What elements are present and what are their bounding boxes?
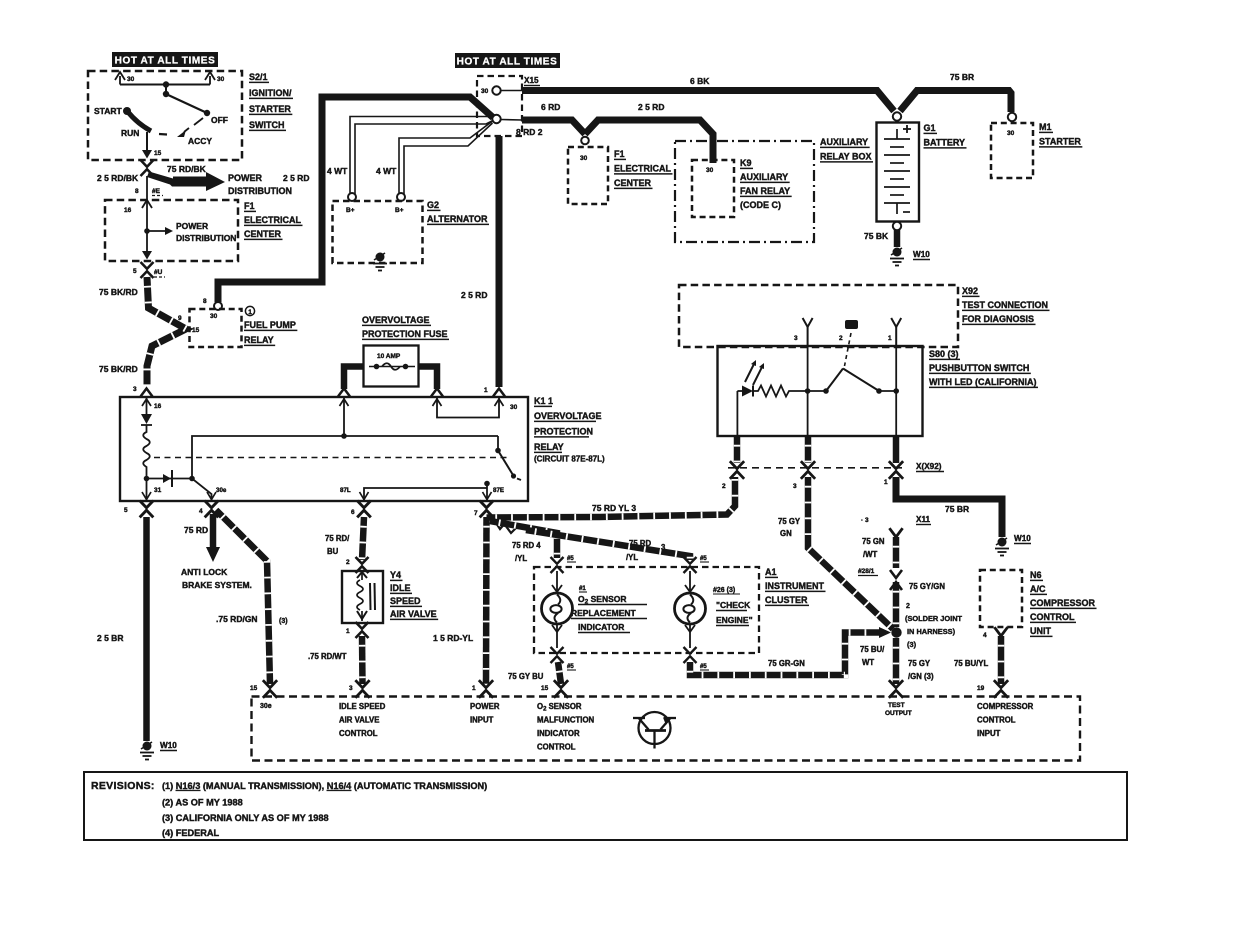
svg-text:/YL: /YL xyxy=(626,553,638,562)
diagnosis connector X92 box xyxy=(679,285,958,347)
svg-text:3: 3 xyxy=(133,386,137,393)
K1/1 labels xyxy=(534,396,605,464)
battery bottom terminal circle xyxy=(893,222,901,230)
svg-text:3: 3 xyxy=(661,543,666,552)
svg-text:2 5 RD: 2 5 RD xyxy=(638,102,664,112)
svg-text:(2) AS OF MY 1988: (2) AS OF MY 1988 xyxy=(162,798,243,808)
svg-text:CONTROL: CONTROL xyxy=(339,729,378,738)
svg-text:BATTERY: BATTERY xyxy=(924,138,966,148)
K1/1 terminal 30e connector xyxy=(205,501,219,518)
svg-text:30: 30 xyxy=(510,404,518,411)
electrical center F1 box (left) xyxy=(105,200,238,261)
svg-text:2 5 RD: 2 5 RD xyxy=(283,173,309,183)
svg-text:G2: G2 xyxy=(427,200,439,210)
K1/1 wire node A to terminal 31 xyxy=(146,479,148,501)
svg-text:87L: 87L xyxy=(340,487,351,494)
svg-text:X(X92): X(X92) xyxy=(916,462,942,471)
O2 sensor replacement indicator lamp xyxy=(542,593,573,624)
svg-text:75 RD: 75 RD xyxy=(184,525,208,535)
connector X(X92) dashed line xyxy=(728,467,902,469)
svg-text:75 BK/RD: 75 BK/RD xyxy=(99,287,138,297)
connector X11 xyxy=(916,515,931,525)
svg-text:INDICATOR: INDICATOR xyxy=(578,622,624,632)
svg-text:10 AMP: 10 AMP xyxy=(377,353,401,360)
svg-text:W10: W10 xyxy=(913,250,930,259)
svg-text:CONTROL: CONTROL xyxy=(537,743,576,752)
electrical center F1 terminal circle xyxy=(581,137,589,145)
X15 terminal 30 circle xyxy=(492,86,500,94)
svg-text:A/C: A/C xyxy=(1030,584,1046,594)
S80/3 LED arrows xyxy=(745,360,764,385)
svg-text:W10: W10 xyxy=(160,741,177,750)
svg-text:19: 19 xyxy=(977,685,985,692)
svg-text:S80 (3): S80 (3) xyxy=(929,349,959,359)
svg-text:X11: X11 xyxy=(916,515,931,524)
svg-text:WITH LED (CALIFORNIA): WITH LED (CALIFORNIA) xyxy=(929,377,1036,387)
svg-text:#E: #E xyxy=(152,188,161,195)
check engine lamp stem above xyxy=(689,571,691,593)
X(X92) connector pin 1 xyxy=(889,461,903,479)
S2/1 terminal 30 left arrow xyxy=(115,72,135,85)
svg-text:#5: #5 xyxy=(567,556,574,562)
wire 75 GY GN from X(X92) pin 3 to solder joint xyxy=(808,477,893,629)
svg-text:1: 1 xyxy=(884,479,888,486)
check engine lamp stem below xyxy=(685,624,695,648)
svg-text:ENGINE": ENGINE" xyxy=(716,615,753,625)
svg-text:30e: 30e xyxy=(216,487,227,494)
instrument cluster A1 dashed box xyxy=(534,567,759,653)
svg-text:75 BR: 75 BR xyxy=(950,72,974,82)
svg-text:1: 1 xyxy=(346,628,350,635)
svg-text:START: START xyxy=(94,106,123,116)
svg-text:75 GN: 75 GN xyxy=(862,537,885,546)
svg-text:#5: #5 xyxy=(700,556,707,562)
svg-text:2 5 RD/BK: 2 5 RD/BK xyxy=(97,173,139,183)
svg-text:#28/1: #28/1 xyxy=(858,568,875,575)
terminal 3 connector bottom box xyxy=(355,680,369,698)
power distribution arrow xyxy=(147,172,225,192)
label HOT AT ALL TIMES (left) xyxy=(112,52,218,67)
svg-text:16: 16 xyxy=(154,403,162,410)
svg-text:4 WT: 4 WT xyxy=(376,166,397,176)
K1/1 diode xyxy=(141,397,152,425)
F1 internal node xyxy=(144,228,150,234)
S2/1 START contact blob xyxy=(123,107,131,115)
X92 pin 1 xyxy=(888,318,901,346)
wire 1.5 RD-YL power input xyxy=(483,517,490,684)
K1/1 terminal 31 connector xyxy=(140,501,154,518)
svg-text:RELAY BOX: RELAY BOX xyxy=(820,152,872,162)
K1/1 mechanical link dashed xyxy=(154,457,511,459)
power input text xyxy=(470,702,500,725)
svg-text:30: 30 xyxy=(210,313,218,320)
svg-text:B+: B+ xyxy=(395,207,404,214)
svg-text:REPLACEMENT: REPLACEMENT xyxy=(571,608,637,618)
svg-text:75 RD 4: 75 RD 4 xyxy=(512,541,541,550)
svg-text:30: 30 xyxy=(217,76,225,83)
svg-text:75 GR-GN: 75 GR-GN xyxy=(768,659,805,668)
battery G1 box xyxy=(877,123,920,222)
svg-text:SPEED: SPEED xyxy=(390,596,421,606)
svg-text:OVERVOLTAGE: OVERVOLTAGE xyxy=(362,315,430,325)
svg-text:75 BR: 75 BR xyxy=(945,504,969,514)
idle speed air valve control text xyxy=(339,702,386,738)
svg-text:W10: W10 xyxy=(1014,534,1031,543)
G2 labels xyxy=(427,200,489,224)
S80/3 LED diode xyxy=(737,386,753,397)
O2 lamp stem below xyxy=(552,624,562,648)
wire 75 BK/RD hatched to fuel pump relay and K1/1 xyxy=(147,277,186,386)
S2/1 ACCY dashed contact xyxy=(184,118,203,132)
N6 labels xyxy=(1030,570,1097,636)
starter M1 box xyxy=(991,123,1033,178)
S80/3 switch pivot node xyxy=(823,388,829,394)
wire 75 BU/YL to bottom box xyxy=(998,636,1005,684)
O2 indicator labels xyxy=(571,586,647,633)
wire .75 RD/GN to terminal 30e xyxy=(216,510,270,684)
wire .75 RD/WT to bottom box xyxy=(359,636,366,684)
svg-text:POWER: POWER xyxy=(228,173,263,183)
fuse left wire xyxy=(344,367,364,390)
svg-text:N6: N6 xyxy=(1030,570,1042,580)
wire 75 RD YL bus from K1/1 87E to X(X92) pin 2 xyxy=(487,477,736,518)
ground W10 left xyxy=(140,742,154,760)
svg-text:CENTER: CENTER xyxy=(614,178,652,188)
wire 75 GN/WT test output xyxy=(893,537,900,568)
svg-text:2: 2 xyxy=(906,603,910,610)
svg-text:HOT AT ALL TIMES: HOT AT ALL TIMES xyxy=(457,57,558,68)
wire 2.5 RD vertical from X15 to K1/1 xyxy=(496,136,503,387)
revisions text xyxy=(91,780,487,838)
overvoltage protection relay K1/1 box xyxy=(120,397,528,501)
svg-text:CONTROL: CONTROL xyxy=(977,716,1016,725)
alternator wires 4WT pair B xyxy=(399,121,493,196)
compressor control input text xyxy=(977,702,1034,738)
K1/1 node A xyxy=(144,476,150,482)
svg-text:HOT AT ALL TIMES: HOT AT ALL TIMES xyxy=(115,56,216,67)
svg-text:75 GY: 75 GY xyxy=(778,517,801,526)
svg-text:F1: F1 xyxy=(614,149,625,159)
label HOT AT ALL TIMES (middle) xyxy=(455,53,560,68)
K1/1 wire to switch pivot xyxy=(497,436,499,449)
svg-text:(CODE C): (CODE C) xyxy=(740,200,781,210)
svg-text:· 3: · 3 xyxy=(861,517,869,524)
svg-text:4: 4 xyxy=(199,508,203,515)
svg-text:S2/1: S2/1 xyxy=(249,72,268,82)
svg-text:75 RD/: 75 RD/ xyxy=(325,534,350,543)
idle valve bottom connector xyxy=(356,622,369,638)
svg-text:75 BK/RD: 75 BK/RD xyxy=(99,364,138,374)
terminal 30e connector bottom box xyxy=(263,680,277,698)
power distribution text xyxy=(228,173,292,196)
svg-text:#26 (3): #26 (3) xyxy=(713,587,735,594)
svg-text:B+: B+ xyxy=(346,207,355,214)
K1/1 relay coil xyxy=(143,425,150,477)
svg-text:IDLE: IDLE xyxy=(390,583,411,593)
svg-text:RELAY: RELAY xyxy=(244,335,274,345)
branch connector chevrons at 87E xyxy=(494,520,517,533)
X92 labels xyxy=(962,286,1050,324)
svg-text:RELAY: RELAY xyxy=(534,442,564,452)
solder joint dot xyxy=(891,627,901,637)
svg-text:F1: F1 xyxy=(244,201,255,211)
S80/3 switch arm dashed link to pin 2 xyxy=(845,333,852,366)
K1/1 terminal mid-right arrow xyxy=(431,389,443,397)
svg-text:POWER: POWER xyxy=(176,221,208,231)
anti-lock brake system text xyxy=(181,567,252,590)
wire .75 RD 4/YL to O2 indicator xyxy=(490,521,557,558)
connector below F1 xyxy=(141,262,154,278)
svg-text:RUN: RUN xyxy=(121,128,139,138)
svg-text:REVISIONS:: REVISIONS: xyxy=(91,780,155,792)
X92 pin 3 xyxy=(794,318,813,346)
X(X92) connector pin 2 xyxy=(730,461,744,479)
S80/3 switch contact wire xyxy=(843,369,899,394)
svg-text:15: 15 xyxy=(154,150,162,157)
svg-text:M1: M1 xyxy=(1039,122,1052,132)
svg-text:.75 RD/WT: .75 RD/WT xyxy=(308,652,347,661)
svg-text:30: 30 xyxy=(706,167,714,174)
idle valve top connector xyxy=(356,557,369,573)
S80/3 output stub left xyxy=(734,436,741,463)
svg-text:PUSHBUTTON SWITCH: PUSHBUTTON SWITCH xyxy=(929,363,1029,373)
svg-text:(3) CALIFORNIA ONLY AS OF MY 1: (3) CALIFORNIA ONLY AS OF MY 1988 xyxy=(162,813,329,823)
connector #28/1 label xyxy=(858,568,878,576)
svg-text:(1) N16/3 (MANUAL TRANSMISSION: (1) N16/3 (MANUAL TRANSMISSION), N16/4 (… xyxy=(162,781,487,791)
svg-text:6: 6 xyxy=(351,509,355,516)
svg-text:#5: #5 xyxy=(700,664,707,670)
F1 power distribution text xyxy=(176,221,236,243)
svg-text:6 RD: 6 RD xyxy=(541,102,560,112)
K1/1 terminal 87L connector xyxy=(357,501,371,518)
A1 connector below O2 lamp xyxy=(551,647,564,663)
G1 labels xyxy=(924,123,967,148)
svg-text:15: 15 xyxy=(192,327,200,334)
svg-text:PROTECTION: PROTECTION xyxy=(534,427,593,437)
alternator ground xyxy=(373,253,387,271)
svg-text:75 BK: 75 BK xyxy=(864,231,889,241)
svg-text:15: 15 xyxy=(250,685,258,692)
svg-text:75 RD YL 3: 75 RD YL 3 xyxy=(592,503,636,513)
S80/3 output stub right xyxy=(893,436,900,463)
K1/1 wire contact to 87E xyxy=(486,484,488,501)
svg-text:30: 30 xyxy=(1007,130,1015,137)
svg-text:(CIRCUIT 87E-87L): (CIRCUIT 87E-87L) xyxy=(534,455,605,464)
X15 lower terminal lead xyxy=(501,119,522,122)
svg-text:31: 31 xyxy=(154,487,162,494)
svg-text:87E: 87E xyxy=(493,487,504,494)
svg-text:Y4: Y4 xyxy=(390,570,401,580)
S2/1 node xyxy=(163,81,169,87)
K1/1 terminal 87E connector xyxy=(480,501,494,518)
svg-text:3: 3 xyxy=(349,685,353,692)
svg-text:INPUT: INPUT xyxy=(977,729,1001,738)
svg-text:8 RD 2: 8 RD 2 xyxy=(516,127,543,137)
svg-text:3: 3 xyxy=(794,335,798,342)
F1 power distribution arrow xyxy=(147,227,173,235)
compressor control input terminal connector xyxy=(994,680,1008,698)
svg-text:30: 30 xyxy=(481,88,489,95)
svg-text:COMPRESSOR: COMPRESSOR xyxy=(1030,598,1096,608)
F1 terminal 5 wire+arrow xyxy=(142,231,152,260)
svg-text:#U: #U xyxy=(154,269,163,276)
F1 right labels xyxy=(614,149,672,188)
svg-text:MALFUNCTION: MALFUNCTION xyxy=(537,716,595,725)
svg-text:DISTRIBUTION: DISTRIBUTION xyxy=(228,186,292,196)
pushbutton switch S80/3 box xyxy=(718,346,923,436)
svg-text:75 RD: 75 RD xyxy=(629,539,651,548)
svg-text:3: 3 xyxy=(793,483,797,490)
X15 label xyxy=(524,76,540,86)
S80/3 left internal wire xyxy=(736,391,738,436)
engine control unit box (bottom) xyxy=(252,697,1081,761)
svg-text:K9: K9 xyxy=(740,158,752,168)
svg-text:2: 2 xyxy=(346,559,350,566)
svg-text:DISTRIBUTION: DISTRIBUTION xyxy=(176,233,236,243)
A1 connector below check engine lamp xyxy=(684,647,697,663)
connector #U label xyxy=(154,269,165,277)
S2/1 dash between RUN and ACCY xyxy=(159,133,167,136)
svg-text:75 BU/: 75 BU/ xyxy=(860,645,885,654)
svg-text:30: 30 xyxy=(580,155,588,162)
battery cells xyxy=(884,129,910,214)
svg-text:GN: GN xyxy=(780,529,792,538)
X15 lower terminal circle xyxy=(492,115,500,123)
auxiliary fan relay K9 box xyxy=(692,160,734,217)
S80/3 labels xyxy=(929,349,1038,387)
svg-text:30: 30 xyxy=(127,76,135,83)
svg-text:2 5 RD: 2 5 RD xyxy=(461,290,487,300)
svg-text:30e: 30e xyxy=(260,703,272,710)
svg-text:STARTER: STARTER xyxy=(249,104,291,114)
F1 terminal 16 arrow xyxy=(124,176,152,231)
svg-text:4 WT: 4 WT xyxy=(327,166,348,176)
svg-text:UNIT: UNIT xyxy=(1030,626,1051,636)
svg-text:COMPRESSOR: COMPRESSOR xyxy=(977,702,1034,711)
K1/1 U link between mid-right and terminal 1 xyxy=(437,397,499,418)
K1/1 terminal mid-left arrow xyxy=(338,389,350,397)
svg-text:(SOLDER JOINT: (SOLDER JOINT xyxy=(905,614,963,623)
S2/1 terminal 30 right arrow xyxy=(205,72,225,85)
wire 75 GY BU to bottom box xyxy=(558,662,561,684)
N6 terminal 4 connector xyxy=(994,627,1007,636)
svg-text:ACCY: ACCY xyxy=(188,136,212,146)
svg-text:2: 2 xyxy=(839,335,843,342)
connector pair on test wire xyxy=(890,570,902,578)
wire .75 RD 3/YL to check engine lamp xyxy=(526,530,690,560)
svg-text:BU: BU xyxy=(327,547,339,556)
K1/1 wire mid terminal down xyxy=(343,397,345,436)
battery G1 terminal circle xyxy=(893,112,901,120)
svg-text:/WT: /WT xyxy=(863,550,878,559)
auxiliary relay box xyxy=(675,141,814,242)
svg-text:A1: A1 xyxy=(765,567,777,577)
K1/1 terminal 3 arrow xyxy=(141,389,153,397)
S80/3 output stub middle xyxy=(805,436,812,463)
wire test output to control unit xyxy=(893,638,900,684)
svg-text:1: 1 xyxy=(888,335,892,342)
svg-text:POWER: POWER xyxy=(470,702,500,711)
K1/1 wire contact to 87L xyxy=(364,488,487,500)
svg-text:75 GY: 75 GY xyxy=(908,659,931,668)
K1/1 wire node B up and across xyxy=(192,436,498,479)
svg-text:SWITCH: SWITCH xyxy=(249,120,285,130)
O2 lamp stem above xyxy=(556,571,558,593)
svg-text:STARTER: STARTER xyxy=(1039,137,1081,147)
K9 labels xyxy=(740,158,792,210)
svg-text:75 GY/GN: 75 GY/GN xyxy=(909,582,945,591)
X15 terminal 30 lead xyxy=(501,90,522,92)
svg-text:TEST CONNECTION: TEST CONNECTION xyxy=(962,300,1048,310)
starter M1 terminal circle xyxy=(1008,113,1016,121)
K1/1 fixed contact node xyxy=(484,481,490,487)
wire 75 RD to anti-lock brake system xyxy=(206,514,220,562)
svg-text:(3): (3) xyxy=(907,640,917,649)
svg-text:X92: X92 xyxy=(962,286,978,296)
wire 6 RD / 2.5 RD bus xyxy=(522,120,585,134)
svg-text:ELECTRICAL: ELECTRICAL xyxy=(244,215,301,225)
svg-text:OFF: OFF xyxy=(211,115,228,125)
electrical center F1 box (right) xyxy=(568,147,608,204)
svg-text:75 RD/BK: 75 RD/BK xyxy=(167,164,207,174)
svg-text:4: 4 xyxy=(983,632,987,639)
svg-text:#5: #5 xyxy=(567,664,574,670)
svg-text:FAN RELAY: FAN RELAY xyxy=(740,186,790,196)
idle speed air valve Y4 box xyxy=(342,571,383,623)
fuel pump relay labels xyxy=(244,320,297,345)
fuse right wire xyxy=(418,367,437,390)
svg-text:INDICATOR: INDICATOR xyxy=(537,729,580,738)
fuse element xyxy=(369,363,415,370)
footnote 1 circled xyxy=(245,306,254,316)
A1 connector above O2 lamp xyxy=(567,556,576,562)
svg-text:7: 7 xyxy=(474,510,478,517)
svg-text:CONTROL: CONTROL xyxy=(1030,612,1075,622)
K1/1 node at mid terminal xyxy=(341,433,347,439)
svg-text:75 BU/YL: 75 BU/YL xyxy=(954,659,988,668)
S2/1 node 2 xyxy=(163,85,169,98)
M1 labels xyxy=(1039,122,1082,147)
svg-text:"CHECK: "CHECK xyxy=(716,600,751,610)
svg-text:2 5 BR: 2 5 BR xyxy=(97,633,123,643)
svg-text:K1 1: K1 1 xyxy=(534,396,553,406)
S80/3 pin3 internal wire xyxy=(807,346,809,436)
K1/1 armature contact symbol xyxy=(147,470,193,487)
test output terminal connector xyxy=(889,680,903,698)
svg-text:IN HARNESS): IN HARNESS) xyxy=(907,627,956,636)
solder joint labels xyxy=(905,603,963,649)
check engine labels xyxy=(713,587,753,626)
svg-text:16: 16 xyxy=(124,207,132,214)
svg-text:ALTERNATOR: ALTERNATOR xyxy=(427,214,488,224)
check engine lamp xyxy=(675,593,706,624)
svg-text:15: 15 xyxy=(541,685,549,692)
A1 labels xyxy=(765,567,825,605)
power input terminal connector xyxy=(479,680,493,698)
svg-text:FUEL PUMP: FUEL PUMP xyxy=(244,320,296,330)
F1 labels xyxy=(244,201,302,239)
S2/1 OFF contact xyxy=(204,110,210,116)
X(X92) label xyxy=(916,462,944,472)
svg-text:ANTI LOCK: ANTI LOCK xyxy=(181,567,228,577)
control unit transistor symbol xyxy=(633,712,676,749)
S2/1 terminal 15 wire+arrow xyxy=(142,132,162,159)
svg-text:1: 1 xyxy=(472,685,476,692)
svg-text:OUTPUT: OUTPUT xyxy=(885,710,912,717)
svg-text:AUXILIARY: AUXILIARY xyxy=(740,172,788,182)
wire 75 BR to ground W10 xyxy=(896,477,1002,537)
ground W10 battery xyxy=(890,248,904,266)
